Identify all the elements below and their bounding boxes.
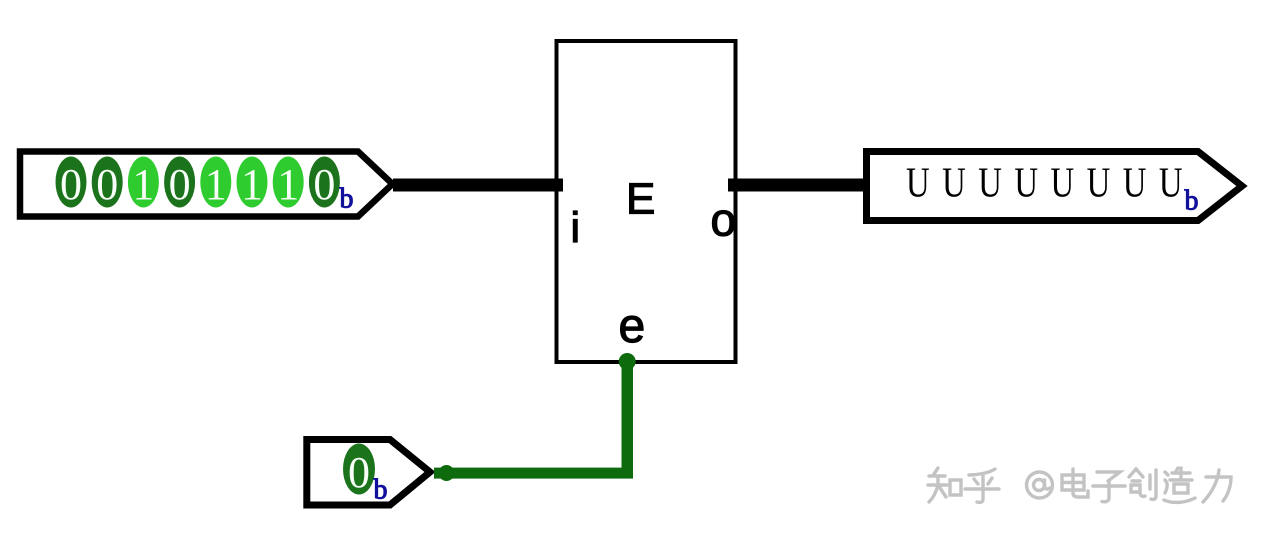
wire: enable net horizontal segment <box>434 468 633 479</box>
node: enable port junction dot on buffer bottom edge <box>619 353 636 370</box>
watermark char at <box>1027 472 1053 498</box>
svg-text:1: 1 <box>205 160 227 209</box>
svg-text:0: 0 <box>96 160 118 209</box>
pin A bit 3 value 1 <box>200 157 231 210</box>
svg-text:E: E <box>626 175 655 224</box>
buffer U1: controlled buffer body <box>557 41 736 362</box>
pin E value 0 <box>343 444 375 498</box>
watermark char zao <box>1164 468 1195 502</box>
svg-text:1: 1 <box>241 160 263 209</box>
label: output value UUUUUUUU <box>906 160 1195 207</box>
svg-text:o: o <box>711 194 737 246</box>
watermark: 知乎 @电子创造力 <box>928 468 1231 502</box>
svg-text:UUUUUUUU: UUUUUUUU <box>906 160 1195 207</box>
wire: enable net vertical segment <box>622 361 634 473</box>
pin E: 1-bit enable input pin body <box>307 440 430 506</box>
pin A: 8-bit input pin body <box>20 152 393 217</box>
watermark char dian <box>1062 469 1088 497</box>
svg-text:b: b <box>374 475 388 506</box>
svg-text:0: 0 <box>348 448 370 497</box>
svg-text:e: e <box>619 300 646 353</box>
watermark char hu <box>965 469 999 502</box>
node: enable wire end junction dot at pin E tip <box>439 465 455 481</box>
wire: output bus from buffer port o to pin Q <box>728 179 870 192</box>
watermark char chuang <box>1129 469 1156 499</box>
pin A bit 0 value 0 <box>309 157 340 210</box>
svg-text:i: i <box>571 204 581 252</box>
pin A bit 1 value 1 <box>273 157 304 210</box>
svg-text:0: 0 <box>169 160 191 209</box>
pin A bit 6 value 0 <box>92 157 123 210</box>
pin A bit 4 value 0 <box>164 157 195 210</box>
svg-text:0: 0 <box>313 160 335 209</box>
watermark char zi <box>1093 472 1125 502</box>
wire: input bus from pin A to buffer port i <box>393 179 563 192</box>
svg-text:b: b <box>1185 186 1199 217</box>
svg-text:0: 0 <box>60 160 82 209</box>
svg-text:b: b <box>340 184 354 215</box>
pin A bit 7 value 0 <box>56 157 87 210</box>
watermark char zhi <box>928 468 961 502</box>
svg-text:1: 1 <box>132 160 154 209</box>
pin A bit 2 value 1 <box>237 157 268 210</box>
pin Q: 8-bit output pin body <box>867 152 1243 221</box>
watermark char li <box>1203 470 1231 502</box>
pin A bit 5 value 1 <box>128 157 159 210</box>
svg-text:1: 1 <box>277 160 299 209</box>
